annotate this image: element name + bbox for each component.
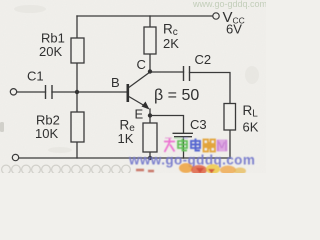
resistor Rc [144, 27, 156, 54]
wire Rb1 top vertical [76, 16, 78, 38]
node B junction [75, 90, 79, 94]
wire node E to C3 top [151, 116, 184, 134]
node Re-ground junction [148, 156, 152, 160]
wire top Vcc rail [77, 15, 213, 17]
smudge blotches [14, 5, 259, 153]
wire node C to C2 [150, 71, 184, 73]
wire Re bottom to ground rail [149, 152, 151, 158]
wire input to C1 [17, 91, 46, 93]
node E junction [148, 113, 152, 117]
capacitor C3 [173, 133, 194, 136]
wire C3 bottom to ground rail [183, 137, 185, 158]
paper noise overlay [0, 0, 266, 173]
resistor Rb2 [71, 112, 84, 142]
resistor Re [143, 123, 157, 152]
ground terminal [12, 154, 18, 160]
watermark CJK char 2 dian (green) [178, 139, 187, 151]
capacitor C2 [184, 66, 190, 81]
watermark CJK char 5 wang (violet) [217, 140, 228, 152]
wire Rc top vertical [149, 16, 151, 27]
wire RL bottom to ground rail [229, 130, 231, 158]
wire bottom ground rail [19, 157, 230, 159]
watermark CJK char 1 guang (pink) [164, 139, 175, 153]
wire Rb2 bottom to ground rail [76, 142, 78, 158]
Vcc terminal [213, 13, 219, 19]
transistor Q1 [128, 72, 150, 110]
wire node E to Re top [149, 109, 151, 123]
watermark CJK char 3 dian (blue) [191, 139, 200, 151]
wire Rb1 bottom to Rb2 top [76, 63, 78, 112]
watermark orange blobs [136, 163, 246, 175]
resistor RL [224, 104, 236, 131]
wire C2 to RL top [190, 73, 231, 104]
wire Rc bottom to node C [149, 54, 151, 72]
wire C1 to base [52, 91, 127, 93]
watermark CJK char 4 qi (orange) [203, 140, 217, 152]
smudge left edge [0, 122, 4, 132]
paper background [0, 0, 266, 173]
capacitor C1 [46, 85, 53, 99]
watermark bottom-left faint circles [2, 165, 131, 174]
resistor Rb1 [71, 38, 84, 63]
watermark tiny dots row [165, 137, 188, 139]
input terminal [10, 89, 16, 95]
node C junction [148, 69, 152, 73]
